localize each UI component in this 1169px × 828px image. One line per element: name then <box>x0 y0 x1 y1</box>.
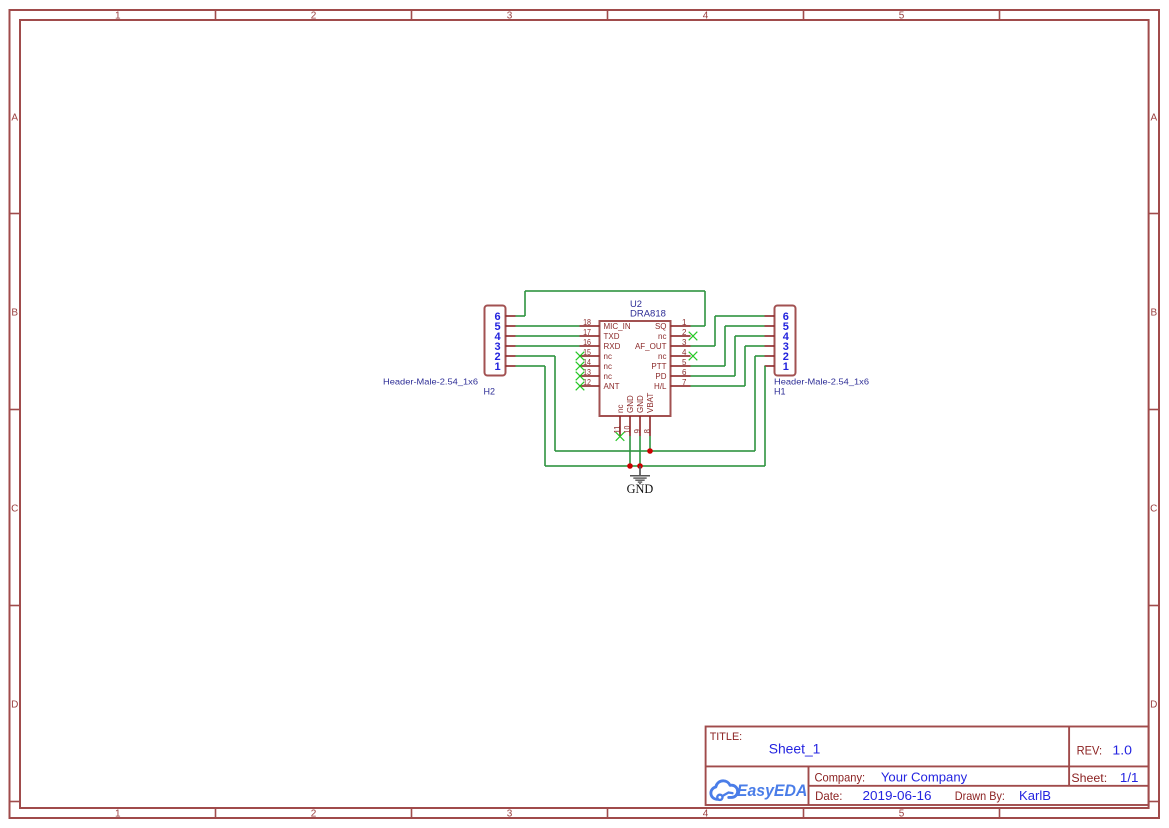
svg-text:Drawn By:: Drawn By: <box>955 789 1005 803</box>
svg-text:7: 7 <box>682 378 687 387</box>
frame column numbers bottom <box>115 809 905 820</box>
svg-text:Sheet:: Sheet: <box>1071 771 1107 785</box>
no-connect X on U2 pin 4 <box>689 352 698 361</box>
junction dot pin9/GND net <box>637 463 643 469</box>
no-connect X on U2 pin 13 <box>576 372 585 381</box>
svg-text:5: 5 <box>899 809 905 820</box>
IC U2 body <box>600 321 671 416</box>
svg-text:Header-Male-2.54_1x6: Header-Male-2.54_1x6 <box>383 377 478 387</box>
svg-text:AF_OUT: AF_OUT <box>635 342 667 351</box>
svg-text:10: 10 <box>623 425 632 433</box>
svg-text:DRA818: DRA818 <box>630 309 666 320</box>
junction dot pin10/GND net <box>627 463 633 469</box>
U2 bottom pin numbers (rotated) <box>613 425 652 433</box>
svg-text:H1: H1 <box>774 387 786 397</box>
wire H2.5 to U2 MIC_IN <box>516 325 580 327</box>
U2 right pin names <box>635 322 667 391</box>
no-connect X on U2 pin 11 <box>616 432 625 441</box>
frame ruler ticks bottom <box>216 808 1000 818</box>
svg-text:2: 2 <box>682 328 687 337</box>
svg-text:1: 1 <box>115 809 121 820</box>
svg-text:GND: GND <box>626 395 635 413</box>
svg-text:3: 3 <box>507 11 513 22</box>
no-connect X on U2 pin 2 <box>689 332 698 341</box>
svg-text:REV:: REV: <box>1077 744 1103 758</box>
svg-text:6: 6 <box>682 368 687 377</box>
svg-text:GND: GND <box>627 482 654 496</box>
frame column numbers top <box>115 11 905 22</box>
svg-text:9: 9 <box>633 429 642 434</box>
frame ruler ticks top <box>216 10 1000 20</box>
wire U2 AF_OUT to H1.6 <box>691 316 765 346</box>
svg-text:5: 5 <box>682 358 687 367</box>
svg-text:PD: PD <box>655 372 666 381</box>
svg-text:1: 1 <box>682 318 687 327</box>
svg-text:PTT: PTT <box>651 362 666 371</box>
svg-text:RXD: RXD <box>604 342 621 351</box>
title block outline <box>706 727 1149 806</box>
header H1 body <box>775 306 796 376</box>
wire U2 pin9 GND drop <box>639 436 641 466</box>
svg-text:8: 8 <box>643 429 652 434</box>
svg-text:16: 16 <box>583 338 591 347</box>
U2 left pin stubs (pins 18,17,16,15,14,13,12) <box>580 326 600 386</box>
svg-text:SQ: SQ <box>655 322 667 331</box>
wire H2.2 to H1.2 VBAT net upper run <box>516 356 765 451</box>
svg-text:Date:: Date: <box>815 789 842 803</box>
svg-text:18: 18 <box>583 318 591 327</box>
U2 left pin numbers <box>583 318 591 387</box>
header H2 pin stubs <box>506 316 516 366</box>
svg-text:nc: nc <box>604 372 612 381</box>
svg-text:GND: GND <box>636 395 645 413</box>
svg-text:15: 15 <box>583 348 591 357</box>
header H1 pin stubs <box>765 316 775 366</box>
wire U2 pin10 GND drop <box>629 436 631 466</box>
svg-text:KarlB: KarlB <box>1019 788 1051 803</box>
svg-text:4: 4 <box>703 809 709 820</box>
svg-text:5: 5 <box>899 11 905 22</box>
svg-text:TXD: TXD <box>604 332 620 341</box>
svg-text:Sheet_1: Sheet_1 <box>769 740 821 756</box>
svg-text:nc: nc <box>604 352 612 361</box>
ground symbol GND <box>630 466 650 484</box>
header H2 pin numbers <box>495 311 502 373</box>
U2 left pin names <box>604 322 631 391</box>
svg-text:H2: H2 <box>484 387 496 397</box>
svg-text:D: D <box>11 700 18 711</box>
svg-text:nc: nc <box>658 352 666 361</box>
svg-text:TITLE:: TITLE: <box>710 731 743 743</box>
wire H2.3 to U2 RXD <box>516 345 580 347</box>
svg-text:4: 4 <box>682 348 687 357</box>
svg-text:1/1: 1/1 <box>1120 770 1139 785</box>
svg-text:VBAT: VBAT <box>646 393 655 413</box>
header H2 body <box>485 306 506 376</box>
EasyEDA logo cloud icon <box>711 781 738 800</box>
svg-text:nc: nc <box>604 362 612 371</box>
svg-text:11: 11 <box>613 425 622 433</box>
frame row letters right <box>1150 113 1157 711</box>
svg-text:2: 2 <box>311 809 317 820</box>
header H1 pin numbers <box>783 311 790 373</box>
svg-text:nc: nc <box>658 332 666 341</box>
svg-text:A: A <box>11 113 18 124</box>
wire H2.6 to U2 SQ <box>516 291 706 326</box>
wire U2 pin8 VBAT drop <box>649 436 651 451</box>
svg-text:H/L: H/L <box>654 382 667 391</box>
svg-text:C: C <box>11 504 18 515</box>
frame row letters left <box>11 113 18 711</box>
junction dot pin8/VBAT net <box>647 448 653 454</box>
svg-text:4: 4 <box>703 11 709 22</box>
svg-text:B: B <box>1150 308 1157 319</box>
U2 right pin stubs (pins 1,2,3,4,5,6,7) <box>671 326 691 386</box>
no-connect X on U2 pin 15 <box>576 352 585 361</box>
svg-text:1: 1 <box>115 11 121 22</box>
svg-text:MIC_IN: MIC_IN <box>604 322 631 331</box>
svg-text:2: 2 <box>311 11 317 22</box>
no-connect X on U2 pin 12 <box>576 382 585 391</box>
svg-text:3: 3 <box>682 338 687 347</box>
svg-text:1: 1 <box>783 361 789 373</box>
U2 bottom pin stubs (pins 11,10,9,8) <box>620 416 650 436</box>
wire U2 H/L to H1.3 <box>691 346 765 386</box>
svg-text:D: D <box>1150 700 1157 711</box>
U2 bottom pin names (rotated) <box>616 393 655 413</box>
svg-text:1: 1 <box>495 361 501 373</box>
svg-text:nc: nc <box>616 405 625 413</box>
wire H2.4 to U2 TXD <box>516 335 580 337</box>
frame ruler ticks left <box>10 214 21 802</box>
svg-text:B: B <box>11 308 18 319</box>
svg-text:A: A <box>1150 113 1157 124</box>
svg-text:1.0: 1.0 <box>1112 743 1132 758</box>
wire U2 PTT to H1.5 <box>691 326 765 366</box>
svg-text:2019-06-16: 2019-06-16 <box>863 788 932 803</box>
svg-text:C: C <box>1150 504 1157 515</box>
frame ruler ticks right <box>1149 214 1159 802</box>
svg-text:ANT: ANT <box>604 382 620 391</box>
svg-text:Header-Male-2.54_1x6: Header-Male-2.54_1x6 <box>774 377 869 387</box>
wire U2 PD to H1.4 <box>691 336 765 376</box>
no-connect X on U2 pin 14 <box>576 362 585 371</box>
svg-text:Your Company: Your Company <box>881 770 968 785</box>
wire H2.1 to H1.1 GND net lower run <box>516 366 766 466</box>
svg-text:3: 3 <box>507 809 513 820</box>
svg-text:Company:: Company: <box>815 771 866 785</box>
U2 right pin numbers <box>682 318 687 387</box>
svg-text:EasyEDA: EasyEDA <box>737 781 808 800</box>
svg-text:17: 17 <box>583 328 591 337</box>
